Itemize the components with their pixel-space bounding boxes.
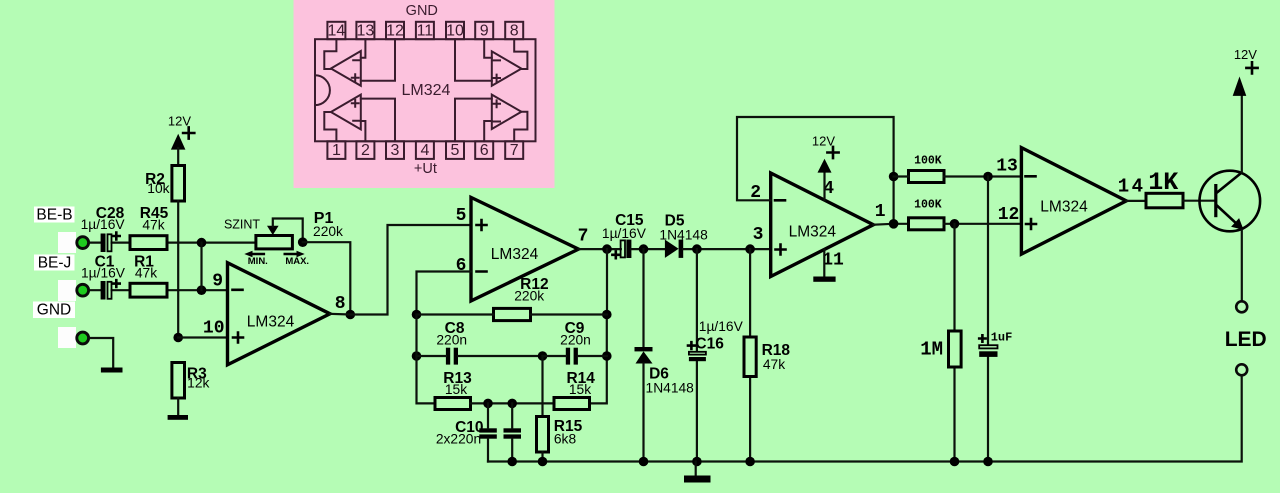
ground symbol input [101, 368, 123, 373]
wire pin13 to A4 minus [361, 39, 366, 58]
label GND [33, 302, 75, 319]
svg-text:2: 2 [361, 142, 370, 159]
svg-text:1µ/16V: 1µ/16V [81, 266, 126, 281]
svg-text:5: 5 [451, 142, 460, 159]
svg-text:6k8: 6k8 [554, 432, 577, 447]
svg-text:1K: 1K [1148, 168, 1178, 197]
wire 1M [953, 224, 955, 462]
junction bus 1M [950, 457, 960, 467]
input terminal BE-B [77, 237, 89, 249]
wire LED to ground bus [488, 375, 1242, 461]
pin box 11 [416, 22, 434, 39]
diode D6 [642, 249, 644, 347]
capacitor C8 [446, 348, 450, 365]
wire 1uF [987, 177, 989, 462]
wire U1B output [579, 248, 621, 250]
svg-text:LED: LED [1225, 328, 1267, 351]
resistor 100K bottom [909, 218, 945, 230]
feedback wire U1C [737, 117, 894, 224]
wire link A-B [200, 243, 202, 291]
transistor Q1 [1200, 171, 1261, 232]
wire U1D out [1126, 200, 1146, 202]
svg-text:LM324: LM324 [1040, 198, 1088, 215]
wire pin5 to A2 plus [455, 99, 492, 142]
wire GND terminal [89, 338, 114, 368]
junction C15-D6 [639, 244, 649, 254]
capacitor C16 [696, 249, 698, 461]
svg-text:6: 6 [456, 256, 467, 276]
pin box 2 [356, 141, 374, 159]
svg-text:8: 8 [510, 23, 519, 40]
svg-text:GND: GND [406, 3, 438, 19]
svg-text:14: 14 [328, 23, 346, 40]
svg-text:15k: 15k [569, 382, 591, 397]
svg-text:LM324: LM324 [789, 223, 837, 240]
wire emitter [1241, 231, 1243, 302]
svg-text:220n: 220n [436, 332, 467, 347]
wire pin2 to A1 minus [361, 121, 366, 141]
wire BE-J row [89, 289, 228, 291]
svg-text:13: 13 [357, 23, 375, 40]
svg-text:LM324: LM324 [247, 313, 295, 330]
wire pin8 to A3 out [514, 39, 527, 69]
wire pin10 to A3 plus [455, 39, 492, 81]
svg-text:2x220n: 2x220n [436, 432, 481, 447]
wire pin10 [178, 336, 227, 338]
svg-text:8: 8 [335, 294, 346, 314]
pin box 12 [386, 22, 404, 39]
wire pin3 to A1 plus [361, 99, 395, 142]
svg-text:12: 12 [386, 23, 404, 40]
svg-text:C16: C16 [695, 335, 724, 352]
label BE-J [34, 255, 75, 271]
svg-text:LM324: LM324 [491, 246, 539, 263]
junction C8-C9 [538, 351, 548, 361]
wire collector [1241, 97, 1243, 173]
junction bus R18 [745, 457, 755, 467]
wire R3 bottom [177, 398, 179, 415]
potentiometer P1 SZINT [256, 236, 293, 249]
junction U1C out [889, 219, 899, 229]
wire right rail [590, 249, 608, 403]
svg-text:220k: 220k [313, 224, 343, 239]
svg-text:100K: 100K [914, 155, 942, 168]
svg-text:LM324: LM324 [402, 82, 451, 99]
svg-text:4: 4 [420, 142, 429, 159]
junction pin10 node [173, 333, 183, 343]
pin box 3 [386, 141, 404, 159]
svg-text:1µ/16V: 1µ/16V [602, 226, 647, 241]
resistor R3 [172, 363, 185, 399]
pin box 10 [446, 22, 464, 39]
svg-text:15k: 15k [445, 382, 467, 397]
ground U1C pin11 [823, 250, 825, 277]
LED terminal top [1236, 301, 1247, 312]
capacitor C28 [101, 234, 106, 253]
capacitor 1uF [979, 345, 997, 348]
capacitor C10 left half [479, 428, 497, 432]
wire pin14 to A4 out [324, 39, 336, 69]
wire R2 to pin10 node [177, 201, 179, 338]
svg-text:12k: 12k [187, 375, 209, 390]
svg-text:1: 1 [875, 202, 886, 222]
junction P1 right [298, 237, 308, 247]
wire pin6 to A2 minus [484, 121, 492, 141]
wire pin1 to A1 out [324, 112, 336, 141]
junction R18 tap [745, 244, 755, 254]
resistor R18 [749, 249, 751, 461]
junction node A [197, 238, 207, 248]
resistor R1 [130, 283, 167, 297]
pin box 6 [475, 141, 493, 159]
pinout panel background [294, 0, 555, 188]
wire C8C9 mid to R15 [541, 356, 543, 417]
svg-text:10k: 10k [147, 181, 169, 196]
capacitor C9 [566, 348, 570, 365]
op-amp A1 bottom-left [331, 95, 361, 130]
IC body DIP14 [315, 39, 536, 141]
notch [315, 75, 330, 105]
svg-text:7: 7 [578, 227, 589, 247]
svg-text:47k: 47k [763, 357, 785, 372]
pin box 1 [327, 141, 345, 159]
resistor R13 [435, 398, 471, 410]
op-amp U1C [771, 173, 874, 277]
svg-text:1µ/16V: 1µ/16V [699, 319, 744, 334]
resistor 1K [1146, 193, 1183, 208]
capacitor C15 [621, 240, 625, 257]
junction bus C16 [692, 457, 702, 467]
resistor 1M [949, 331, 962, 367]
supply 12V U1C [823, 172, 825, 200]
ground symbol main bus [695, 462, 697, 476]
op-amp U1B [471, 197, 579, 301]
svg-text:13: 13 [996, 156, 1018, 176]
svg-text:5: 5 [456, 206, 467, 226]
svg-text:3: 3 [753, 225, 764, 245]
resistor R14 [554, 398, 590, 410]
svg-text:1N4148: 1N4148 [646, 381, 695, 396]
diode D5 [665, 240, 679, 258]
ground symbol R3 [168, 415, 188, 420]
svg-text:11: 11 [822, 251, 844, 271]
junction C10 left [483, 399, 493, 409]
junction bus C10 [507, 457, 517, 467]
svg-text:6: 6 [480, 142, 489, 159]
svg-text:1µ/16V: 1µ/16V [81, 217, 126, 232]
wire pin9 to A3 minus [484, 39, 492, 58]
wire pin12 to A4 plus [361, 39, 395, 81]
capacitor C1 [101, 281, 106, 300]
label BE-B [34, 207, 75, 223]
pin box 4 [416, 141, 434, 159]
pin box 5 [446, 141, 464, 159]
LED terminal bottom [1236, 364, 1247, 375]
wire BE-B row [89, 242, 256, 244]
svg-text:1uF: 1uF [991, 330, 1013, 344]
resistor R12 [494, 308, 531, 320]
junction right rail R12 [602, 310, 612, 320]
svg-text:SZINT: SZINT [224, 218, 260, 232]
junction bus R15 [538, 457, 548, 467]
svg-text:10: 10 [446, 23, 464, 40]
junction left rail C8 [412, 351, 422, 361]
svg-text:47k: 47k [135, 266, 157, 281]
svg-text:+Ut: +Ut [414, 161, 437, 177]
op-amp A2 bottom-right [492, 95, 522, 129]
svg-text:10: 10 [203, 318, 225, 338]
wire R13 row [471, 402, 555, 404]
junction bus D6 [639, 457, 649, 467]
svg-text:220n: 220n [560, 332, 591, 347]
op-amp A4 top-left [331, 51, 361, 86]
svg-text:9: 9 [480, 23, 489, 40]
junction 1uF tap [983, 172, 993, 182]
junction feedback tap [889, 172, 899, 182]
resistor R45 [130, 236, 167, 250]
junction 1M tap [950, 219, 960, 229]
wire 1K to base [1183, 200, 1215, 202]
svg-text:11: 11 [417, 23, 434, 40]
junction left rail R12 [412, 310, 422, 320]
pin box 13 [356, 22, 374, 39]
pin box 14 [327, 22, 345, 39]
junction node B [197, 285, 207, 295]
junction C16 tap [692, 244, 702, 254]
input terminal GND [77, 332, 89, 344]
resistor 100K top [909, 171, 945, 183]
svg-text:MIN.: MIN. [248, 256, 268, 267]
svg-text:14: 14 [1118, 175, 1146, 197]
supply 12V right [1233, 77, 1247, 96]
capacitor C10 right half [504, 428, 522, 432]
svg-text:3: 3 [391, 142, 400, 159]
svg-text:12: 12 [998, 205, 1020, 225]
svg-text:BE-B: BE-B [36, 207, 72, 224]
wire pin7 to A2 out [514, 112, 527, 142]
junction C10 right [507, 399, 517, 409]
resistor R15 [537, 417, 549, 453]
svg-text:9: 9 [212, 271, 223, 291]
wire left rail [417, 315, 436, 404]
svg-text:100K: 100K [914, 198, 942, 211]
resistor R2 [172, 166, 185, 202]
svg-text:MAX.: MAX. [285, 256, 309, 267]
pin box 9 [475, 22, 493, 39]
wire U1B pin6 to feedback [417, 272, 472, 315]
junction bus 1uF [983, 457, 993, 467]
junction U1B out [602, 244, 612, 254]
svg-text:47k: 47k [142, 218, 164, 233]
input terminal BE-J [77, 284, 89, 296]
svg-text:BE-J: BE-J [38, 255, 72, 272]
svg-text:1M: 1M [920, 339, 943, 361]
svg-text:GND: GND [37, 302, 71, 319]
pin box 8 [505, 22, 523, 39]
svg-text:1: 1 [332, 142, 341, 159]
pin box 7 [505, 141, 523, 159]
wire U1A out to U1B plus [330, 225, 471, 315]
op-amp U1A [228, 263, 331, 365]
svg-text:220k: 220k [514, 289, 544, 304]
junction right rail C9 [602, 351, 612, 361]
wire P1 to U1A output node [303, 242, 351, 314]
svg-text:12V: 12V [1234, 47, 1257, 62]
op-amp U1D [1021, 148, 1126, 255]
svg-text:7: 7 [510, 142, 519, 159]
junction U1A output [346, 310, 356, 320]
wire U1C output [873, 223, 908, 226]
op-amp A3 top-right [492, 51, 522, 85]
svg-text:1N4148: 1N4148 [659, 228, 708, 243]
